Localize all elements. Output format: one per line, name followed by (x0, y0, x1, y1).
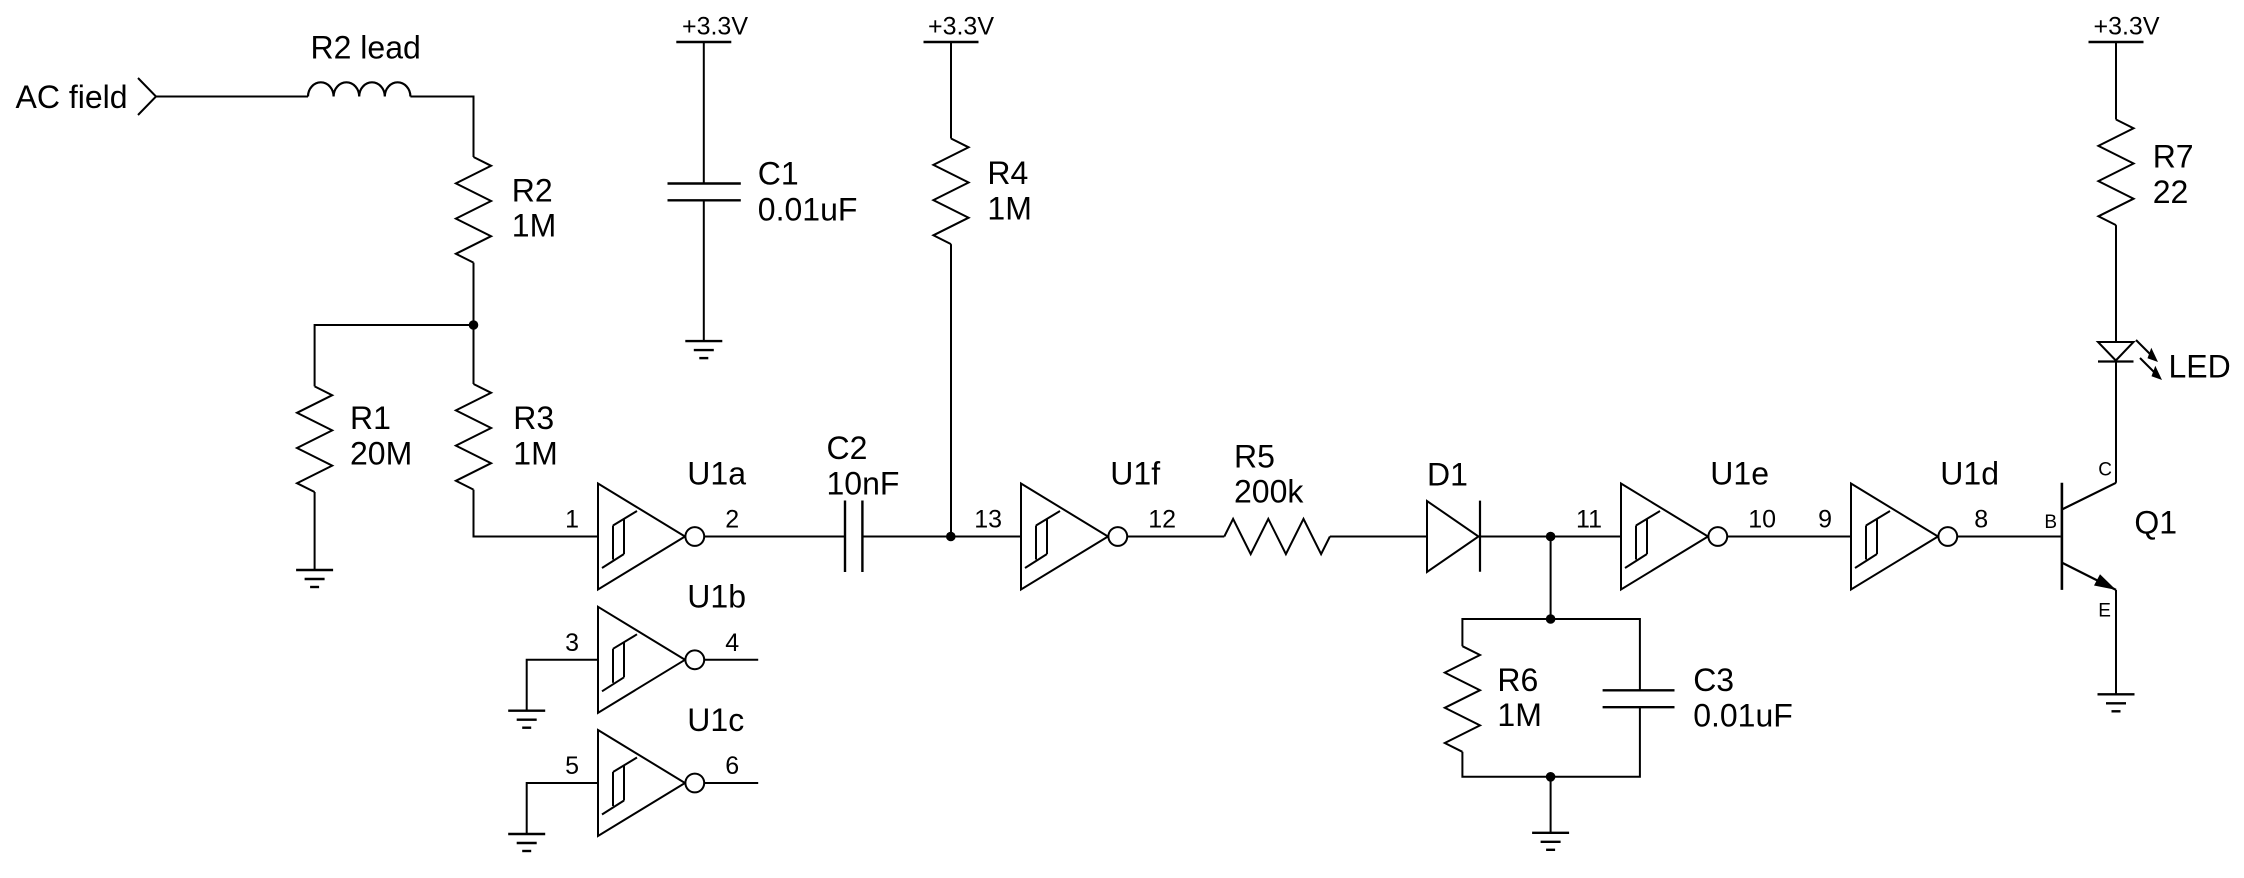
wire (473, 325, 475, 384)
svg-text:2: 2 (725, 506, 739, 534)
junction node (R6/C3 bottom) (1546, 772, 1556, 782)
inverter U1b (598, 579, 746, 713)
wire (527, 660, 598, 711)
svg-text:R2: R2 (512, 172, 553, 208)
wire (2115, 362, 2117, 483)
svg-text:B: B (2044, 512, 2057, 533)
capacitor C3 (1603, 689, 1675, 691)
wire (474, 490, 599, 537)
svg-text:R5: R5 (1234, 438, 1275, 474)
wire (950, 244, 952, 536)
svg-text:9: 9 (1818, 506, 1832, 534)
svg-text:+3.3V: +3.3V (2093, 13, 2159, 41)
inverter U1a (598, 455, 746, 589)
svg-text:C1: C1 (758, 155, 799, 191)
ground (R1) (296, 569, 333, 571)
svg-text:6: 6 (725, 752, 739, 780)
wire (2115, 42, 2117, 120)
svg-text:U1d: U1d (1940, 455, 1999, 491)
resistor R1 (297, 386, 332, 492)
svg-text:R3: R3 (513, 400, 554, 436)
svg-text:10: 10 (1748, 506, 1776, 534)
wire (1127, 536, 1224, 538)
wire (2115, 225, 2117, 342)
svg-text:200k: 200k (1234, 474, 1304, 510)
svg-text:+3.3V: +3.3V (928, 13, 994, 41)
wire (704, 536, 845, 538)
junction node (R2/R1/R3) (469, 320, 479, 330)
ground (U1c input) (508, 833, 545, 835)
ground (R6/C3) (1532, 832, 1569, 834)
capacitor C2 (844, 501, 846, 573)
resistor R2 (456, 157, 491, 263)
resistor R5 (1224, 519, 1330, 554)
svg-text:22: 22 (2153, 174, 2189, 210)
svg-text:0.01uF: 0.01uF (1693, 697, 1793, 733)
svg-text:D1: D1 (1427, 456, 1468, 492)
wire (315, 325, 474, 386)
svg-text:LED: LED (2169, 348, 2231, 384)
svg-text:1M: 1M (513, 435, 557, 471)
svg-text:10nF: 10nF (827, 465, 900, 501)
svg-text:U1e: U1e (1710, 455, 1769, 491)
wire (704, 782, 758, 784)
svg-text:11: 11 (1576, 506, 1602, 534)
wire (950, 42, 952, 139)
wire (1462, 619, 1640, 690)
LED D2 (2098, 342, 2134, 361)
svg-text:4: 4 (725, 629, 739, 657)
wire (1957, 536, 2061, 538)
wire (473, 263, 475, 325)
svg-text:0.01uF: 0.01uF (758, 192, 858, 228)
resistor R7 (2098, 120, 2133, 226)
resistor R3 (456, 384, 491, 490)
svg-text:12: 12 (1148, 506, 1176, 534)
diode D1 (1427, 501, 1479, 572)
ground (C1) (685, 340, 722, 342)
wire (703, 42, 705, 184)
wire (862, 536, 1021, 538)
wire (1462, 707, 1640, 777)
resistor R6 (1445, 646, 1480, 752)
inductor R2 lead (308, 82, 410, 96)
wire (527, 783, 598, 834)
svg-text:20M: 20M (350, 435, 412, 471)
svg-text:R6: R6 (1497, 662, 1538, 698)
svg-text:1M: 1M (512, 208, 556, 244)
inverter U1e (1621, 455, 1769, 589)
wire (410, 97, 473, 158)
svg-text:R7: R7 (2153, 139, 2194, 175)
svg-text:Q1: Q1 (2134, 504, 2177, 540)
junction node (C2/R4/U1f) (946, 532, 956, 542)
svg-text:C: C (2098, 459, 2112, 480)
svg-text:R4: R4 (987, 155, 1028, 191)
svg-text:U1a: U1a (687, 455, 746, 491)
wire (1727, 536, 1851, 538)
svg-text:1M: 1M (1497, 697, 1541, 733)
inverter U1c (598, 702, 744, 836)
svg-text:13: 13 (974, 506, 1002, 534)
transistor Q1 (2061, 483, 2064, 590)
svg-text:3: 3 (565, 629, 579, 657)
svg-text:U1f: U1f (1110, 455, 1160, 491)
svg-text:U1c: U1c (687, 702, 744, 738)
inverter U1f (1021, 455, 1160, 589)
svg-text:+3.3V: +3.3V (682, 13, 748, 41)
svg-text:5: 5 (565, 752, 579, 780)
svg-text:U1b: U1b (687, 579, 746, 615)
wire (156, 96, 308, 98)
inverter U1d (1851, 455, 1999, 589)
wire (1480, 536, 1621, 538)
wire (703, 200, 705, 341)
ground (Q1 emitter) (2098, 693, 2135, 695)
junction node (R6/C3 top) (1546, 614, 1556, 624)
svg-text:1: 1 (565, 506, 579, 534)
svg-text:C3: C3 (1693, 662, 1734, 698)
svg-text:AC field: AC field (16, 79, 128, 115)
wire (1330, 536, 1427, 538)
svg-text:C2: C2 (827, 430, 868, 466)
svg-text:1M: 1M (987, 190, 1031, 226)
wire (1550, 777, 1552, 833)
svg-text:E: E (2098, 601, 2111, 622)
wire (2115, 590, 2117, 694)
svg-text:R2 lead: R2 lead (311, 30, 421, 66)
ground (U1b input) (508, 710, 545, 712)
resistor R4 (933, 139, 968, 245)
connector AC field input (138, 78, 156, 115)
capacitor C1 (668, 182, 741, 184)
junction node (D1/R6C3/U1e) (1546, 532, 1556, 542)
svg-text:8: 8 (1974, 506, 1988, 534)
wire (1550, 537, 1552, 620)
wire (704, 659, 758, 661)
svg-text:R1: R1 (350, 400, 391, 436)
wire (314, 492, 316, 570)
